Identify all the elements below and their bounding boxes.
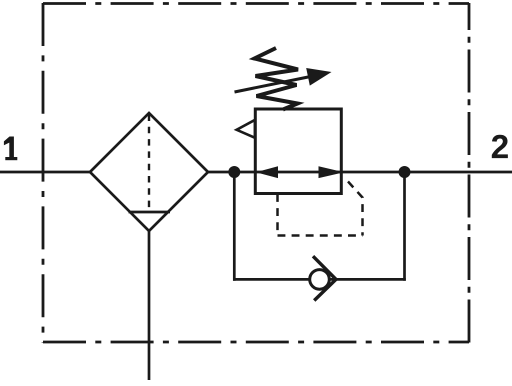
drain line bbox=[148, 231, 151, 380]
wire main line port1 to filter bbox=[0, 171, 91, 174]
enclosure border left bbox=[42, 3, 45, 343]
enclosure border bottom bbox=[43, 341, 469, 344]
bypass wire bottom bbox=[233, 278, 406, 281]
regulator R1 adjustment arrow shaft bbox=[235, 77, 311, 92]
pilot dashed line right leg bbox=[348, 182, 363, 236]
node upstream junction bbox=[228, 166, 240, 178]
port label 1 bbox=[4, 137, 17, 161]
wire main line filter to port2 bbox=[207, 171, 512, 174]
pilot dashed line left leg bbox=[276, 194, 279, 236]
node downstream junction bbox=[399, 166, 411, 178]
check valve V1 seat chevron bbox=[313, 256, 336, 300]
pilot dashed line bottom bbox=[278, 234, 363, 237]
regulator R1 adjustment arrowhead bbox=[306, 68, 331, 86]
enclosure border right bbox=[468, 3, 471, 343]
port label 2 bbox=[492, 135, 508, 158]
regulator R1 relief vent triangle bbox=[237, 120, 255, 138]
regulator R1 right flow arrowhead bbox=[319, 166, 345, 178]
regulator R1 body bbox=[255, 109, 341, 194]
bypass wire left leg bbox=[233, 172, 236, 281]
filter F1 water trap chord bbox=[129, 211, 171, 214]
regulator R1 spring bbox=[255, 48, 299, 110]
enclosure border top bbox=[43, 2, 469, 5]
bypass wire right leg bbox=[403, 172, 406, 281]
regulator R1 left flow arrowhead bbox=[256, 166, 278, 178]
filter F1 diamond bbox=[90, 113, 208, 231]
check valve V1 ball bbox=[310, 270, 330, 290]
filter F1 dashed centerline bbox=[148, 115, 150, 210]
